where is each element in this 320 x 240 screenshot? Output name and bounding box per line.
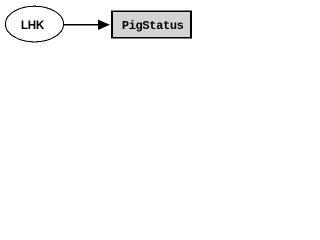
wire edge LHK to PigStatus — [64, 24, 100, 26]
background — [0, 0, 197, 48]
svg-text:PigStatus: PigStatus — [122, 19, 184, 33]
node LHK (ellipse) — [5, 6, 63, 42]
arrowhead — [98, 20, 109, 29]
svg-text:LHK: LHK — [21, 19, 45, 32]
node PigStatus (box) — [112, 11, 191, 38]
